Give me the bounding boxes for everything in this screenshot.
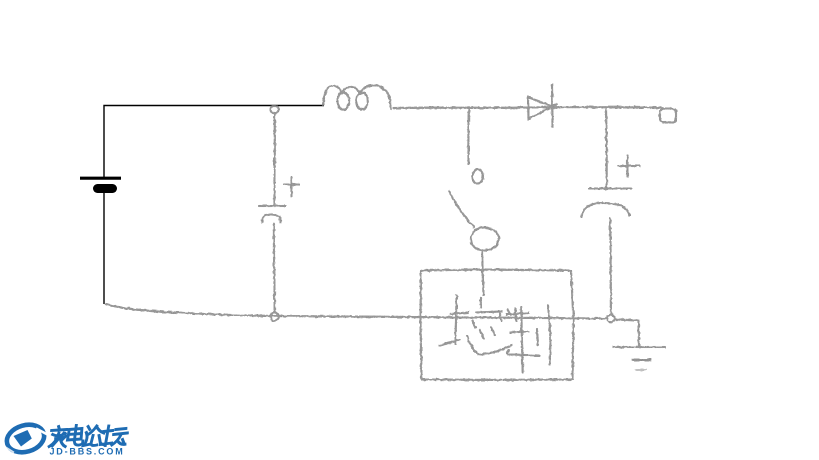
- label 控 stroke: hand radical rising tick: [440, 340, 460, 346]
- wire: node A down to capacitor C1: [273, 114, 276, 204]
- capacitor C1 plus sign: [284, 177, 299, 196]
- wire: black top rail from battery to inductor: [104, 106, 324, 178]
- label 控 stroke: roof left dot: [473, 321, 476, 328]
- label 制 stroke: middle horizontal: [511, 332, 529, 333]
- switch S1 upper contact: [472, 170, 483, 184]
- label 控 stroke: hand radical horizontal: [451, 313, 469, 315]
- label 制 stroke: lower horizontal with hook: [507, 350, 539, 356]
- wire: output cap top from rail: [605, 108, 608, 188]
- switch S1 arm: [449, 191, 474, 227]
- capacitor C2 top plate: [589, 187, 631, 189]
- capacitor C1 top plate: [259, 205, 285, 207]
- node B (junction input cap / bottom rail): [270, 312, 278, 320]
- node A (junction at input cap top): [271, 106, 279, 114]
- output terminal: [660, 109, 676, 123]
- wire: bottom rail: [106, 304, 607, 319]
- label 制 stroke: top-left tick: [508, 310, 511, 316]
- ground symbol: [613, 346, 665, 348]
- wire: switch to control box: [482, 252, 484, 296]
- 电: [67, 426, 85, 446]
- label 制 stroke: long vertical: [521, 308, 522, 373]
- label 制 stroke: left small vertical: [514, 309, 517, 321]
- 坛: [100, 426, 128, 446]
- label 制 stroke: top horizontal: [507, 313, 528, 315]
- 论: [84, 426, 106, 446]
- logo icon swoosh ellipse: [4, 421, 48, 457]
- wire: capacitor C2 down to bottom rail: [610, 219, 611, 314]
- capacitor C2 plus sign: [618, 156, 640, 177]
- label 控 stroke: eight left: [480, 331, 484, 339]
- battery B1 top plate: [80, 177, 121, 180]
- logo icon gap slash: [36, 429, 48, 435]
- 家: [49, 427, 67, 447]
- label 控 stroke: hand radical vertical: [456, 295, 457, 344]
- switch S1 lower contact: [471, 228, 499, 251]
- label 控 stroke: eight right: [491, 328, 495, 336]
- label 制 stroke: knife short vertical: [537, 330, 538, 346]
- svg-text:JD-BBS.COM: JD-BBS.COM: [50, 447, 125, 457]
- logo text 家电论坛: [49, 426, 128, 447]
- diode D1: [528, 85, 556, 127]
- capacitor C1 bottom plate (curved): [262, 215, 281, 223]
- wire: inductor to output terminal (through diode): [394, 106, 661, 109]
- wire: bottom rail to ground drop: [615, 320, 639, 347]
- wire: black wire battery negative down: [103, 193, 105, 304]
- label 制 stroke: knife long vertical: [548, 306, 550, 365]
- label 控 stroke: bottom curve: [467, 336, 512, 355]
- capacitor C2 bottom plate (curved): [582, 203, 630, 217]
- label 控 stroke: roof horizontal: [476, 312, 502, 313]
- wire: capacitor C1 down to bottom rail: [273, 224, 276, 312]
- logo icon inner flag: [14, 430, 32, 447]
- label 控 stroke: top dot: [479, 298, 482, 308]
- battery B1 bottom plate: [93, 184, 117, 193]
- control box U1: [421, 270, 574, 381]
- inductor L1: [323, 85, 342, 105]
- label 控 stroke: roof right tick: [500, 314, 502, 322]
- wire: top rail to switch: [467, 107, 470, 164]
- node C (junction output cap / bottom rail): [607, 315, 615, 323]
